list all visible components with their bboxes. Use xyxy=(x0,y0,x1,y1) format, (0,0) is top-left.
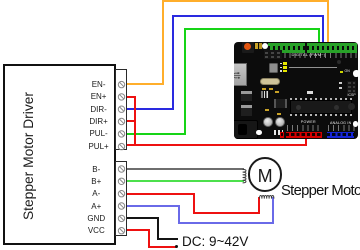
striped resonator xyxy=(272,130,283,135)
driver label "Stepper Motor Driver" xyxy=(16,86,42,226)
wire EN+ red stub to 5V bus xyxy=(127,96,136,98)
wire EN- orange: left vertical xyxy=(162,0,164,85)
pin label GND xyxy=(76,214,116,223)
wire PUL- green: right vertical into arduino D-pin xyxy=(318,28,320,46)
power pin ticks xyxy=(287,125,322,131)
ATmega328 DIP IC U2 xyxy=(290,98,352,101)
dc barrel jack xyxy=(230,120,258,139)
wire A+ violet: up vertical to coil A xyxy=(272,197,274,224)
wire VCC red: down vertical xyxy=(148,229,150,248)
wire GND black: down vertical xyxy=(157,217,159,240)
terminal block J1 (EN/DIR/PUL) xyxy=(115,69,127,150)
mounting hole bottom xyxy=(256,130,261,135)
reset button xyxy=(242,42,255,53)
POWER header red xyxy=(286,132,323,138)
pin label DIR+ xyxy=(79,117,119,126)
pin label PUL+ xyxy=(79,142,119,151)
2x3 pin header (USB programming) xyxy=(264,50,283,59)
ICSP 2x3 header xyxy=(347,81,356,93)
wire PUL- green: stub xyxy=(127,133,186,135)
motor label "Stepper Motor" xyxy=(281,183,360,199)
wire A- red: bottom horizontal xyxy=(193,212,260,214)
L TX RX leds xyxy=(283,62,287,64)
pin label PUL- xyxy=(79,129,119,138)
wire GND black: stub xyxy=(127,217,159,219)
wire B+ light green xyxy=(127,180,244,182)
wire DIR- blue: stub xyxy=(127,108,174,110)
wire A- red: stub xyxy=(127,193,195,195)
wire DIR+ red stub to 5V bus xyxy=(127,120,136,122)
voltage regulator 2 xyxy=(241,105,252,116)
DC supply label xyxy=(182,234,248,249)
wire red 5V bus vertical xyxy=(134,96,136,146)
8-pin IC xyxy=(274,99,287,108)
wire GND black: end horizontal xyxy=(157,238,178,240)
terminal block J2 screws xyxy=(115,161,129,237)
wire DIR- blue: left vertical xyxy=(172,15,174,110)
stepper motor driver box U1 xyxy=(3,64,116,245)
pin label B+ xyxy=(76,177,116,186)
arduino board A1 xyxy=(234,42,358,140)
electrolytic capacitor C2 xyxy=(275,117,285,127)
ON led + label xyxy=(340,71,344,73)
pin label B- xyxy=(76,165,116,174)
digital header green strip left group xyxy=(268,43,305,53)
stepper motor M1 circle xyxy=(248,157,283,192)
wire EN- orange: right vertical into arduino D-pin xyxy=(327,0,329,45)
wire A- red: up vertical to coil A xyxy=(258,197,260,214)
mounting hole right xyxy=(353,70,359,76)
ANALOG IN header blue xyxy=(327,132,355,138)
electrolytic capacitor C1 xyxy=(263,117,273,127)
wire DIR- blue: top horizontal xyxy=(172,15,324,17)
dark via circle xyxy=(337,60,341,64)
tiny white bits right column xyxy=(339,82,342,84)
mounting hole top xyxy=(262,43,268,49)
terminal block J1 screws xyxy=(115,69,129,151)
crystal oscillator xyxy=(260,78,280,86)
white SMD component xyxy=(307,91,314,94)
wire VCC red: stub xyxy=(127,229,150,231)
barcode sticker xyxy=(260,91,269,98)
wire A- red: down vertical xyxy=(193,193,195,214)
usb connector xyxy=(222,63,247,86)
pin label VCC xyxy=(76,226,116,235)
IOREF red cell xyxy=(280,132,284,138)
coil B (motor winding B) xyxy=(240,168,249,184)
ICSP label xyxy=(348,93,356,97)
metal resonator square xyxy=(269,63,278,73)
wire VCC red: end horizontal xyxy=(148,246,177,248)
POWER silk label xyxy=(301,120,316,124)
pin label EN- xyxy=(79,80,119,89)
wire EN- orange: stub xyxy=(127,83,164,85)
wire DIR- blue: right vertical into arduino D-pin xyxy=(322,15,324,46)
pin label EN+ xyxy=(79,92,119,101)
analog pin ticks xyxy=(328,125,355,131)
wire A+ violet: stub xyxy=(127,205,180,207)
wire PUL- green: top horizontal xyxy=(184,28,319,30)
gold SMD caps xyxy=(262,88,266,90)
wire B- gray xyxy=(127,168,244,170)
silk line above IC xyxy=(289,66,337,69)
digital header green strip right group xyxy=(307,43,357,53)
wire VCC end tip xyxy=(175,245,178,248)
wire A+ violet: bottom horizontal xyxy=(178,222,274,224)
coil A (motor winding A) xyxy=(258,194,276,201)
pin label A+ xyxy=(76,202,116,211)
wire PUL- green: left vertical xyxy=(184,28,186,135)
ANALOG IN silk label xyxy=(330,121,351,125)
wire red 5V vertical up into arduino power pin xyxy=(305,136,307,145)
mounting hole bottom right xyxy=(353,121,358,126)
digital pin number ticks xyxy=(269,53,357,58)
gold SMD bits near top xyxy=(255,43,258,49)
DIGITAL (PWM~) silk text xyxy=(292,52,326,57)
terminal block J2 (B/A/PWR) xyxy=(115,161,127,236)
wire EN- orange: top horizontal xyxy=(162,0,328,2)
wire A+ violet: down vertical xyxy=(178,205,180,224)
wire PUL+ red long horizontal to arduino xyxy=(127,144,307,146)
pin label DIR- xyxy=(79,105,119,114)
pin label A- xyxy=(76,189,116,198)
voltage regulator 1 xyxy=(241,91,252,102)
